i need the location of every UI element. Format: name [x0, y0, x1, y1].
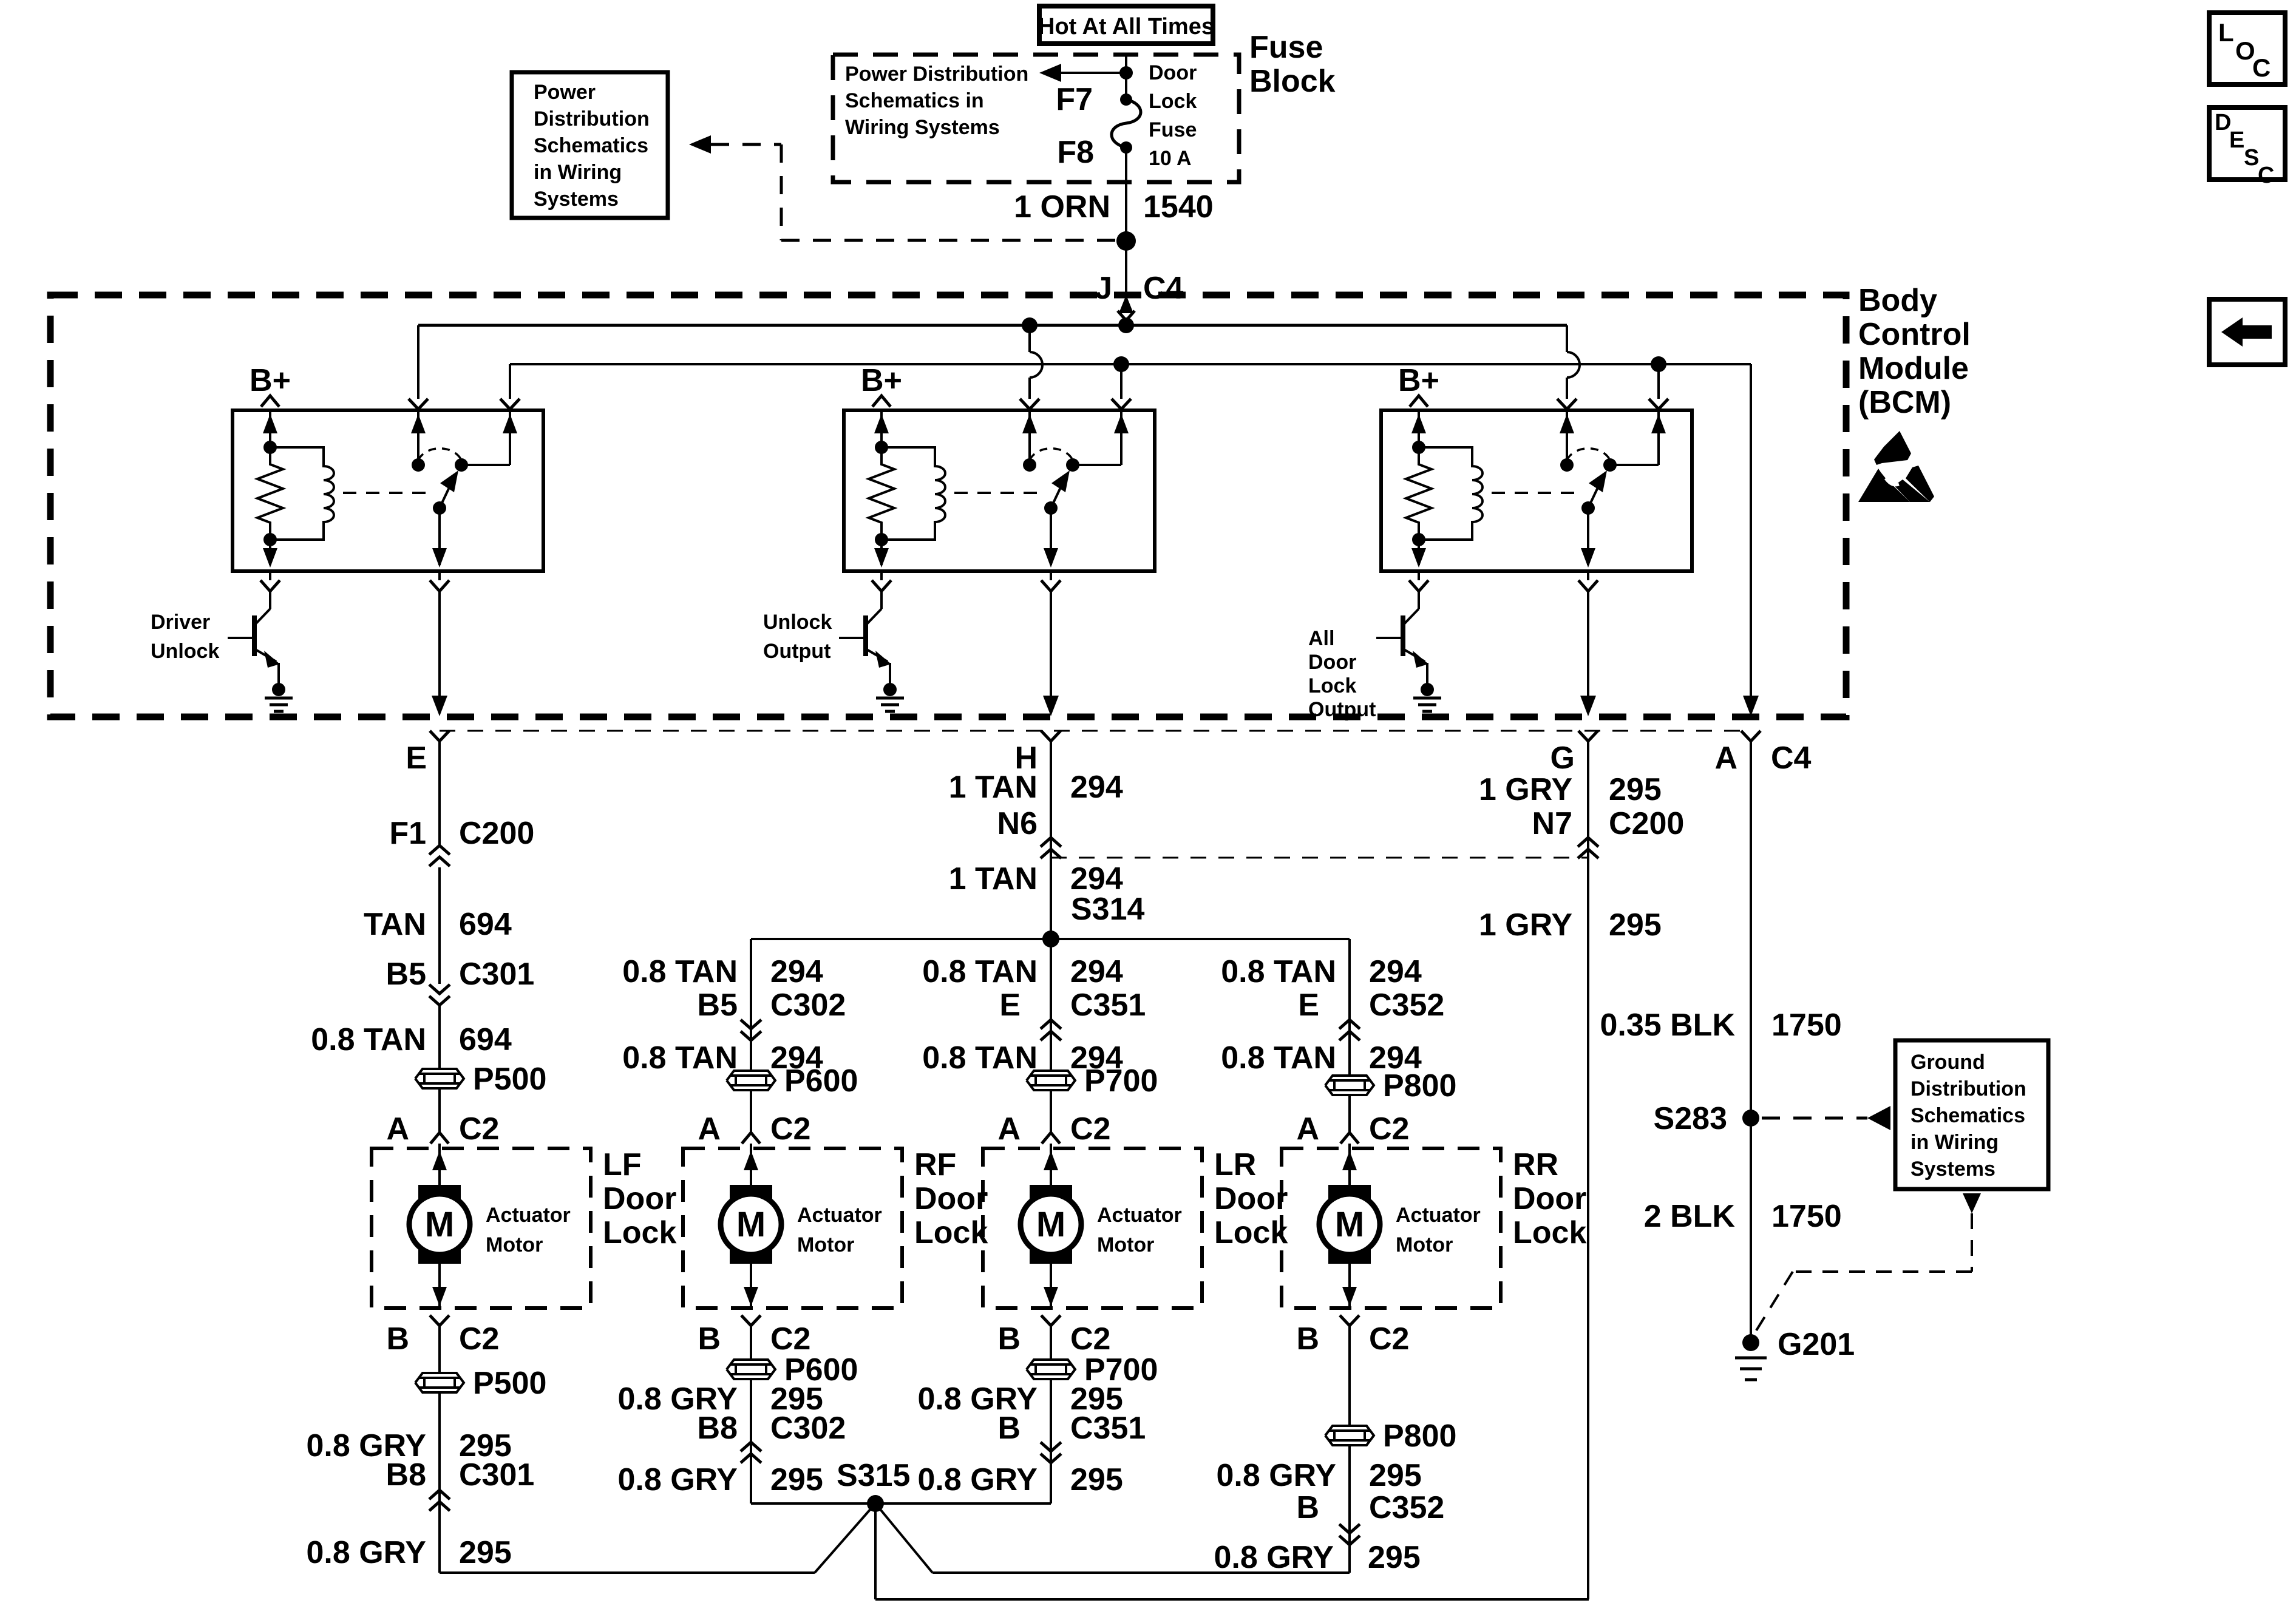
transistor unlock output driver — [839, 591, 891, 685]
wire RR motor return — [932, 1326, 1350, 1573]
svg-text:295: 295 — [770, 1462, 823, 1497]
wire label 0.8 GRY 295 RR — [1217, 1458, 1422, 1493]
grommet P600 upper — [727, 1063, 858, 1099]
LF door lock dashed outline — [372, 1148, 591, 1308]
svg-text:295: 295 — [1368, 1540, 1421, 1575]
relay driver unlock coil winding — [263, 447, 334, 568]
svg-text:Door: Door — [1149, 61, 1197, 84]
svg-text:C: C — [2252, 53, 2271, 82]
svg-text:Control: Control — [1858, 317, 1971, 352]
fuse block note: Power Distribution Schematics in Wiring Systems — [845, 63, 1028, 139]
svg-text:Door: Door — [1214, 1181, 1288, 1216]
connector C4 pin E — [406, 731, 449, 776]
connector C301 pin B5 — [386, 957, 535, 1005]
node splice S283 — [1654, 1101, 1759, 1136]
svg-text:C351: C351 — [1070, 1411, 1146, 1446]
svg-text:in Wiring: in Wiring — [534, 161, 622, 184]
wire out of RF actuator — [741, 1264, 761, 1326]
wire LR motor return — [1050, 1326, 1052, 1503]
relay unlock switch wiper arm — [1044, 470, 1070, 568]
label unlock output — [763, 611, 832, 663]
svg-text:294: 294 — [1369, 954, 1422, 989]
svg-text:0.8 TAN: 0.8 TAN — [622, 954, 738, 989]
relay unlock armature dashed link — [954, 492, 1044, 494]
svg-text:295: 295 — [1609, 772, 1662, 807]
wire splice S314 distribution — [751, 938, 1350, 940]
connector C2 pin A at RF door — [698, 1111, 810, 1147]
svg-text:0.35 BLK: 0.35 BLK — [1600, 1008, 1735, 1043]
label Actuator Motor LF — [486, 1204, 571, 1256]
svg-text:E: E — [2229, 127, 2244, 153]
svg-text:E: E — [406, 741, 427, 776]
svg-text:in Wiring: in Wiring — [1911, 1131, 1999, 1154]
node bus junction fuse feed — [1118, 317, 1134, 333]
relay driver unlock common pin connector — [430, 571, 449, 591]
wire label 1 GRY 295 upper — [1479, 772, 1662, 807]
wire RF motor return — [750, 1326, 752, 1503]
relay driver unlock coil suppression resistor — [257, 441, 283, 546]
svg-text:C2: C2 — [1369, 1321, 1409, 1357]
wire bus to pin A — [1743, 364, 1759, 716]
connector C352 pin E — [1298, 988, 1444, 1040]
connector C200 pin N6 — [997, 806, 1061, 858]
wire 0.8 TAN 694 — [311, 1005, 512, 1133]
wire label 2 BLK 1750 — [1644, 1199, 1842, 1234]
connector C2 pin B at RF door — [698, 1321, 810, 1357]
svg-text:N6: N6 — [997, 806, 1038, 841]
svg-text:2 BLK: 2 BLK — [1644, 1199, 1736, 1234]
svg-text:A: A — [1714, 741, 1737, 776]
relay unlock B+ pin — [861, 363, 902, 447]
svg-text:C352: C352 — [1369, 1490, 1444, 1525]
wire into LR actuator — [1044, 1144, 1058, 1185]
ground at driver unlock transistor emitter — [265, 683, 293, 711]
svg-text:0.8 GRY: 0.8 GRY — [918, 1462, 1038, 1497]
svg-text:Systems: Systems — [534, 188, 619, 211]
relay all door lock switch wiper arm — [1581, 470, 1607, 568]
connector C302 pin B8 — [698, 1411, 846, 1463]
svg-text:Hot At All Times: Hot At All Times — [1038, 14, 1214, 39]
svg-text:Actuator: Actuator — [797, 1204, 882, 1227]
node splice S315 — [837, 1458, 910, 1512]
svg-text:P500: P500 — [473, 1366, 546, 1401]
ground at unlock output transistor emitter — [876, 683, 904, 711]
wire TAN 694 — [364, 867, 512, 984]
svg-text:694: 694 — [459, 907, 512, 942]
svg-text:Unlock: Unlock — [151, 640, 219, 663]
DESC reference box — [2209, 107, 2285, 188]
svg-text:B: B — [997, 1321, 1021, 1357]
relay unlock wiper feed pin riser — [1020, 325, 1042, 465]
svg-text:1750: 1750 — [1771, 1199, 1842, 1234]
svg-text:10 A: 10 A — [1149, 147, 1192, 170]
relay driver unlock armature dashed link — [343, 492, 432, 494]
connector C200 dashed body line — [1051, 857, 1588, 859]
wire into RF actuator — [744, 1144, 758, 1185]
grommet P800 upper — [1325, 1068, 1456, 1103]
svg-text:S283: S283 — [1654, 1101, 1727, 1136]
motor M4 actuator — [1319, 1185, 1380, 1264]
relay driver unlock coil pin connector — [260, 571, 280, 591]
wire 1 ORN 1540 — [1014, 147, 1214, 295]
relay all door lock coil suppression resistor — [1406, 441, 1432, 546]
svg-text:S314: S314 — [1071, 892, 1145, 927]
svg-text:Body: Body — [1858, 283, 1937, 318]
svg-text:294: 294 — [1070, 770, 1123, 805]
wire label 0.8 GRY 295 RF lower — [618, 1462, 823, 1497]
svg-text:F7: F7 — [1056, 82, 1093, 117]
svg-text:B: B — [386, 1321, 409, 1357]
node bus junction middle relay wiper feed — [1022, 317, 1038, 333]
svg-text:N7: N7 — [1532, 806, 1572, 841]
svg-text:RR: RR — [1513, 1147, 1558, 1182]
connector C351 pin B — [997, 1411, 1146, 1463]
relay driver unlock box — [233, 410, 543, 571]
svg-text:Lock: Lock — [914, 1215, 988, 1250]
svg-text:295: 295 — [459, 1535, 512, 1570]
wire label 0.8 TAN 294 RR lower — [1221, 1040, 1422, 1076]
connector C4 pin G — [1550, 731, 1598, 776]
wire relay common to pin G — [1580, 591, 1596, 716]
svg-text:B5: B5 — [698, 988, 738, 1023]
relay all door lock switch contacts — [1560, 449, 1659, 472]
ground at all door lock output transistor emitter — [1413, 683, 1441, 711]
svg-text:0.8 GRY: 0.8 GRY — [307, 1535, 427, 1570]
transistor driver unlock driver — [228, 591, 280, 685]
svg-text:Motor: Motor — [797, 1233, 854, 1256]
svg-text:P800: P800 — [1383, 1419, 1456, 1454]
svg-text:295: 295 — [1070, 1462, 1123, 1497]
svg-text:C302: C302 — [770, 988, 846, 1023]
wire label 0.8 GRY 295 RF — [618, 1381, 823, 1417]
wire label 0.8 GRY 295 LF lower — [307, 1535, 512, 1570]
wire into LF actuator — [432, 1144, 447, 1185]
transistor all door lock output driver — [1376, 591, 1428, 685]
grommet P700 upper — [1027, 1063, 1158, 1099]
label all door lock output — [1308, 627, 1376, 721]
svg-text:S: S — [2244, 145, 2259, 171]
svg-text:Door: Door — [1513, 1181, 1586, 1216]
svg-text:M: M — [1036, 1205, 1065, 1244]
svg-text:P800: P800 — [1383, 1068, 1456, 1103]
LOC reference box — [2209, 13, 2285, 84]
ground distribution note box — [1895, 1040, 2048, 1189]
relay unlock coil pin connector — [872, 571, 891, 591]
wire bus B+ feed upper — [418, 324, 1567, 327]
svg-text:Lock: Lock — [603, 1215, 676, 1250]
motor M2 actuator — [721, 1185, 781, 1264]
svg-text:C301: C301 — [459, 957, 534, 992]
svg-text:B: B — [698, 1321, 721, 1357]
relay all door lock coil winding — [1411, 447, 1483, 568]
svg-text:C2: C2 — [1369, 1111, 1409, 1147]
wire label 0.8 GRY 295 RR lower — [1214, 1540, 1421, 1575]
svg-text:Motor: Motor — [1396, 1233, 1453, 1256]
wire RF branch 0.8 TAN 294 — [622, 939, 823, 1133]
relay driver unlock switch wiper arm — [432, 470, 458, 568]
relay unlock switch contacts — [1023, 449, 1121, 472]
svg-text:G201: G201 — [1778, 1327, 1855, 1362]
relay driver unlock switch contacts — [412, 449, 510, 472]
left note box Power Distribution Schematics in Wiring Systems — [512, 72, 668, 218]
connector C4 pin A — [1714, 731, 1811, 776]
wire out of LR actuator — [1041, 1264, 1061, 1326]
svg-text:Driver: Driver — [151, 611, 210, 634]
label RF Door Lock — [914, 1147, 988, 1250]
wire splice S315 collector — [751, 1503, 1589, 1599]
grommet P500 lower — [415, 1366, 546, 1401]
motor M3 actuator — [1021, 1185, 1081, 1264]
wire label 0.8 GRY 295 LF upper — [307, 1428, 512, 1463]
Body Control Module dashed outline — [50, 295, 1846, 717]
wire out of RR actuator — [1340, 1264, 1359, 1326]
svg-text:C2: C2 — [1070, 1321, 1110, 1357]
wire fuse feed — [1125, 55, 1127, 100]
svg-text:C2: C2 — [1070, 1111, 1110, 1147]
svg-text:0.8 TAN: 0.8 TAN — [311, 1022, 426, 1057]
svg-text:C: C — [2258, 163, 2274, 188]
svg-text:A: A — [997, 1111, 1021, 1147]
grommet P800 lower — [1325, 1419, 1456, 1454]
grommet P500 upper — [415, 1062, 546, 1097]
svg-text:B+: B+ — [250, 363, 291, 398]
wire label 0.8 TAN 294 LR lower — [922, 1040, 1123, 1076]
svg-text:C200: C200 — [459, 816, 534, 851]
relay unlock output pin riser — [1112, 364, 1131, 465]
svg-text:P500: P500 — [473, 1062, 546, 1097]
arrow to power distribution schematics — [1039, 64, 1133, 82]
svg-text:C302: C302 — [770, 1411, 846, 1446]
relay all door lock coil pin connector — [1409, 571, 1428, 591]
svg-text:E: E — [1298, 988, 1319, 1023]
svg-text:A: A — [1296, 1111, 1319, 1147]
svg-text:M: M — [1335, 1205, 1364, 1244]
relay all door lock common pin connector — [1578, 571, 1598, 591]
svg-text:0.8 TAN: 0.8 TAN — [922, 1040, 1038, 1076]
fuse block dashed outline — [833, 55, 1239, 182]
svg-text:0.8 TAN: 0.8 TAN — [622, 1040, 738, 1076]
svg-text:Motor: Motor — [1097, 1233, 1154, 1256]
svg-text:G: G — [1550, 741, 1575, 776]
label RR Door Lock — [1513, 1147, 1586, 1250]
svg-text:E: E — [999, 988, 1021, 1023]
fuse F7/F8 Door Lock Fuse 10 A — [1056, 82, 1141, 170]
connector C302 pin B5 — [698, 988, 846, 1040]
"Hot At All Times" power label box — [1038, 6, 1214, 44]
svg-text:C200: C200 — [1609, 806, 1684, 841]
relay all door lock output pin riser — [1649, 364, 1668, 465]
svg-text:Module: Module — [1858, 351, 1969, 386]
svg-text:C4: C4 — [1143, 271, 1184, 306]
relay all door lock wiper feed pin riser — [1557, 325, 1580, 465]
label LF Door Lock — [603, 1147, 676, 1250]
relay driver unlock wiper feed pin riser — [409, 325, 428, 465]
svg-text:P600: P600 — [784, 1063, 858, 1099]
wire label 1 GRY 295 lower — [1479, 907, 1662, 943]
dashed reference link to power distribution box — [689, 135, 1119, 240]
svg-text:Wiring Systems: Wiring Systems — [845, 116, 1000, 139]
svg-text:694: 694 — [459, 1022, 512, 1057]
connector C4 dashed body line — [440, 730, 1751, 732]
svg-text:C2: C2 — [770, 1321, 810, 1357]
svg-text:Output: Output — [763, 640, 830, 663]
svg-text:1 GRY: 1 GRY — [1479, 772, 1572, 807]
svg-text:294: 294 — [1070, 954, 1123, 989]
svg-text:1540: 1540 — [1143, 189, 1214, 225]
svg-text:Unlock: Unlock — [763, 611, 832, 634]
svg-text:Output: Output — [1308, 698, 1376, 721]
relay all door lock B+ pin — [1398, 363, 1439, 447]
svg-text:C4: C4 — [1771, 741, 1812, 776]
svg-text:Power Distribution: Power Distribution — [845, 63, 1028, 86]
relay all door lock armature dashed link — [1492, 492, 1581, 494]
LR door lock dashed outline — [983, 1148, 1202, 1308]
connector C2 pin B at LR door — [997, 1321, 1110, 1357]
svg-text:294: 294 — [770, 954, 823, 989]
connector C352 pin B — [1296, 1490, 1444, 1545]
wire relay common to pin H — [1043, 591, 1059, 716]
svg-text:1 ORN: 1 ORN — [1014, 189, 1110, 225]
svg-text:0.8 GRY: 0.8 GRY — [1214, 1540, 1334, 1575]
svg-text:M: M — [425, 1205, 454, 1244]
relay unlock common pin connector — [1041, 571, 1061, 591]
svg-text:Door: Door — [914, 1181, 988, 1216]
svg-text:0.8 TAN: 0.8 TAN — [1221, 1040, 1336, 1076]
svg-text:Schematics: Schematics — [1911, 1104, 2025, 1127]
svg-text:Schematics in: Schematics in — [845, 89, 984, 112]
svg-text:294: 294 — [1070, 861, 1123, 897]
label Actuator Motor LR — [1097, 1204, 1182, 1256]
node bus junction right relay output — [1651, 356, 1666, 372]
svg-text:1 GRY: 1 GRY — [1479, 907, 1572, 943]
svg-text:Schematics: Schematics — [534, 134, 648, 157]
RF door lock dashed outline — [683, 1148, 902, 1308]
svg-text:Lock: Lock — [1308, 674, 1356, 697]
connector C4 pin J into BCM — [1095, 271, 1183, 325]
connector C301 pin B8 — [386, 1457, 535, 1511]
wire label 1 TAN 294 upper — [949, 770, 1123, 805]
label Fuse Block — [1249, 30, 1336, 99]
connector C351 pin E — [999, 988, 1146, 1040]
svg-text:All: All — [1308, 627, 1334, 650]
label Body Control Module (BCM) — [1858, 283, 1971, 420]
svg-text:Actuator: Actuator — [486, 1204, 571, 1227]
wire relay common to pin E — [432, 591, 447, 716]
ground G201 — [1735, 1327, 1855, 1380]
svg-text:A: A — [698, 1111, 721, 1147]
RR door lock dashed outline — [1282, 1148, 1501, 1308]
grommet P700 lower — [1027, 1352, 1158, 1388]
connector C200 pin N7 — [1532, 806, 1685, 858]
wire pin E to connector C200 — [438, 741, 441, 846]
svg-text:A: A — [386, 1111, 409, 1147]
motor M1 actuator — [409, 1185, 470, 1264]
svg-text:F1: F1 — [389, 816, 426, 851]
connector C2 pin B at LF door — [386, 1321, 499, 1357]
back arrow navigation box — [2209, 299, 2285, 365]
relay unlock box — [844, 410, 1155, 571]
relay unlock coil suppression resistor — [869, 441, 894, 546]
svg-text:0.8 GRY: 0.8 GRY — [1217, 1458, 1337, 1493]
svg-text:B5: B5 — [386, 957, 426, 992]
wire pin H to S314 — [1050, 741, 1052, 939]
node bus junction middle relay output — [1113, 356, 1129, 372]
connector C2 pin A at RR door — [1296, 1111, 1409, 1147]
svg-text:Ground: Ground — [1911, 1051, 1985, 1074]
svg-text:P700: P700 — [1084, 1063, 1158, 1099]
svg-text:Fuse: Fuse — [1249, 30, 1323, 65]
connector C200 pin F1 — [389, 816, 534, 866]
svg-text:0.8 TAN: 0.8 TAN — [1221, 954, 1336, 989]
fuse rating text Door Lock Fuse 10 A — [1149, 61, 1197, 170]
svg-text:C2: C2 — [459, 1321, 499, 1357]
dashed reference link from ground distribution box to G201 — [1753, 1193, 1981, 1335]
relay driver unlock B+ pin — [250, 363, 291, 447]
svg-text:B: B — [997, 1411, 1021, 1446]
svg-text:C352: C352 — [1369, 988, 1444, 1023]
svg-text:Actuator: Actuator — [1097, 1204, 1182, 1227]
wire into RR actuator — [1342, 1144, 1357, 1185]
svg-text:Motor: Motor — [486, 1233, 543, 1256]
svg-text:C301: C301 — [459, 1457, 534, 1493]
svg-text:J: J — [1095, 271, 1112, 306]
wire RR branch 0.8 TAN 294 — [1221, 939, 1422, 1133]
svg-text:C351: C351 — [1070, 988, 1146, 1023]
dashed reference link to ground distribution box — [1762, 1106, 1890, 1130]
wire LR branch 0.8 TAN 294 — [922, 939, 1123, 1133]
svg-text:Fuse: Fuse — [1149, 118, 1197, 141]
svg-text:C2: C2 — [459, 1111, 499, 1147]
svg-text:Lock: Lock — [1149, 90, 1197, 113]
connector C2 pin A at LF door — [386, 1111, 499, 1147]
svg-text:LR: LR — [1214, 1147, 1256, 1182]
svg-text:(BCM): (BCM) — [1858, 385, 1951, 420]
svg-text:Lock: Lock — [1513, 1215, 1586, 1250]
wire LF motor return — [440, 1326, 815, 1573]
connector C2 pin A at LR door — [997, 1111, 1110, 1147]
svg-text:L: L — [2218, 18, 2234, 47]
svg-text:Distribution: Distribution — [534, 107, 650, 131]
wire bus B+ feed lower — [510, 363, 1751, 365]
svg-text:RF: RF — [914, 1147, 956, 1182]
svg-text:Distribution: Distribution — [1911, 1077, 2026, 1100]
svg-text:TAN: TAN — [364, 907, 426, 942]
svg-text:Lock: Lock — [1214, 1215, 1288, 1250]
node splice on ORN wire — [1116, 231, 1136, 251]
svg-text:C2: C2 — [770, 1111, 810, 1147]
grommet P600 lower — [727, 1352, 858, 1388]
wire label 0.8 GRY 295 LR lower — [918, 1462, 1123, 1497]
relay driver unlock output pin riser — [500, 364, 520, 465]
label driver unlock — [151, 611, 219, 663]
svg-text:LF: LF — [603, 1147, 642, 1182]
node splice S314 — [1042, 892, 1145, 947]
svg-text:0.8 TAN: 0.8 TAN — [922, 954, 1038, 989]
svg-text:S315: S315 — [837, 1458, 910, 1493]
label Actuator Motor RF — [797, 1204, 882, 1256]
svg-text:M: M — [736, 1205, 766, 1244]
svg-text:Block: Block — [1249, 64, 1336, 99]
svg-text:B: B — [1296, 1321, 1319, 1357]
label LR Door Lock — [1214, 1147, 1288, 1250]
svg-text:1 TAN: 1 TAN — [949, 861, 1038, 897]
wire label 0.8 TAN 294 RF lower — [622, 1040, 823, 1076]
wire label 0.8 GRY 295 LR — [918, 1381, 1123, 1417]
svg-text:Door: Door — [603, 1181, 676, 1216]
label Actuator Motor RR — [1396, 1204, 1481, 1256]
svg-text:Door: Door — [1308, 651, 1356, 674]
svg-text:B+: B+ — [1398, 363, 1439, 398]
